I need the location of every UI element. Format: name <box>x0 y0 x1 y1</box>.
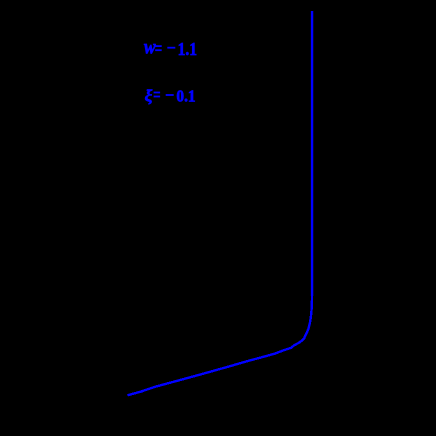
label w = -1.1 : minus bar <box>167 47 175 49</box>
label w = -1.1 : equals bars <box>155 45 162 47</box>
label xi = -0.1 : equals bars <box>154 92 161 94</box>
svg-text:1.1: 1.1 <box>178 39 197 59</box>
label xi = -0.1 : minus bar <box>166 94 174 96</box>
svg-text:w: w <box>144 36 156 58</box>
svg-text:ξ: ξ <box>145 86 153 105</box>
curve: vertical asymptote branch <box>311 11 313 296</box>
svg-text:0.1: 0.1 <box>176 86 195 105</box>
curve: slanted rising branch (big-rip trajectory) <box>128 295 313 395</box>
